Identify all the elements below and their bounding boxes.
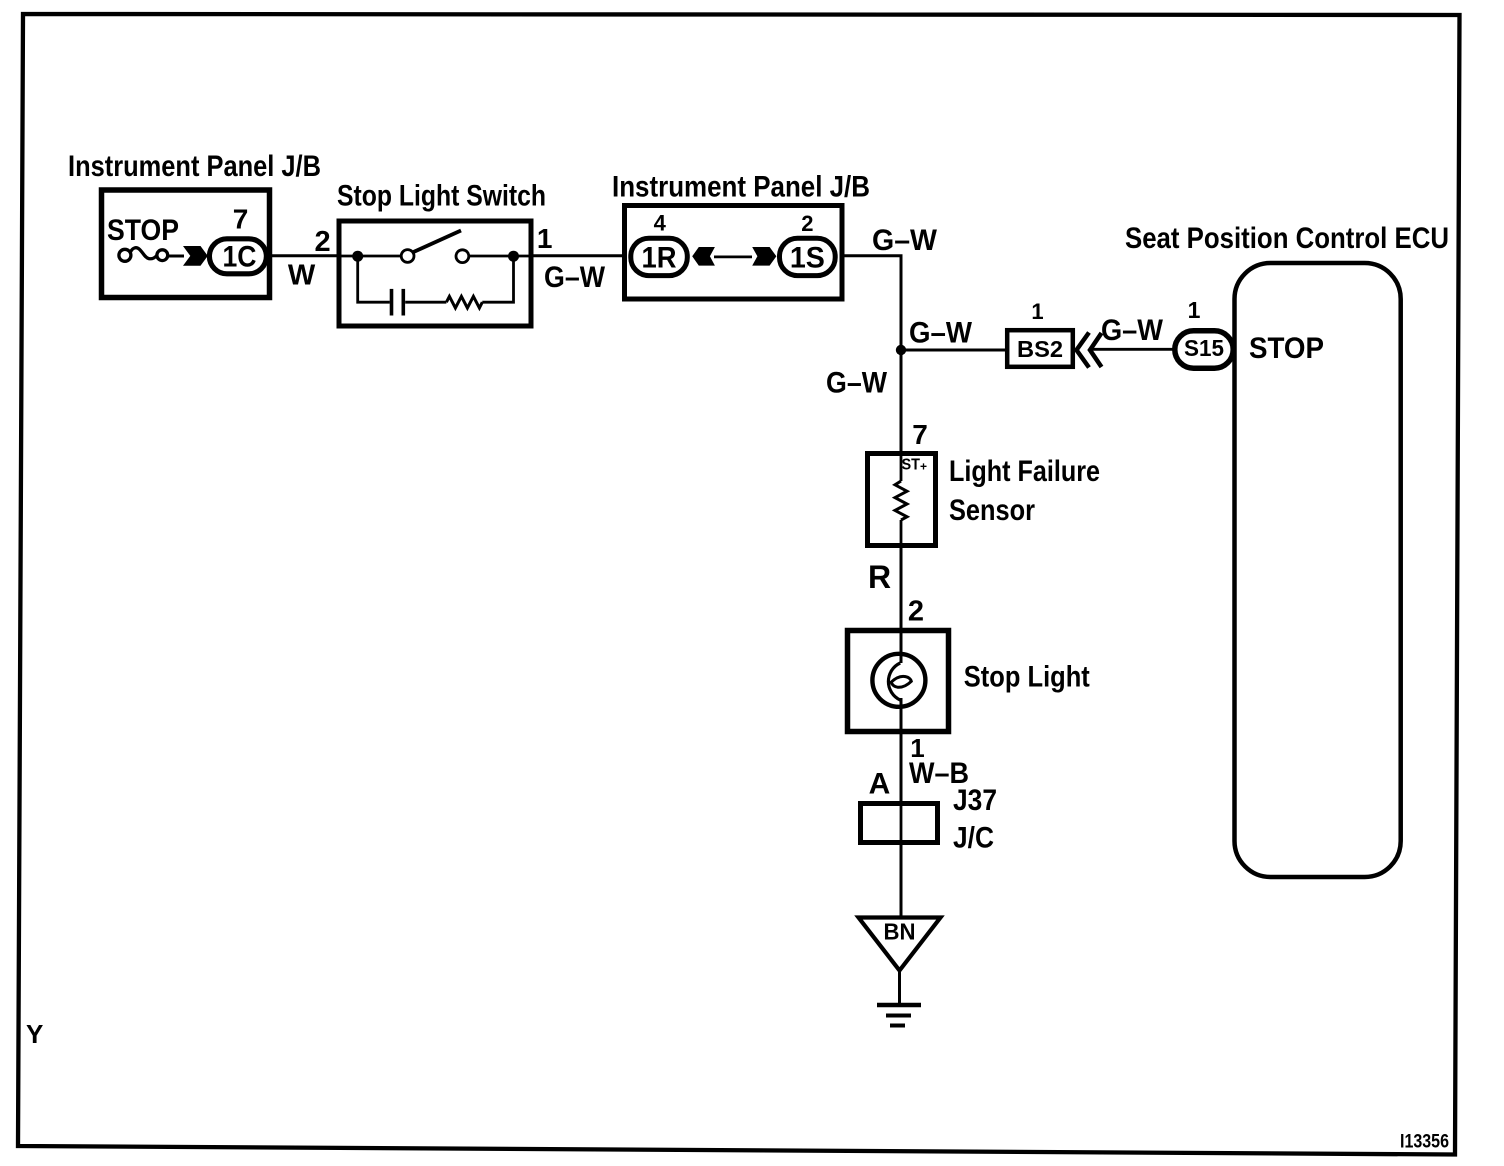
svg-text:4: 4	[654, 211, 667, 236]
svg-text:2: 2	[908, 596, 924, 628]
wire G-W junction to BS2	[901, 317, 1007, 351]
resistor inside sensor	[895, 453, 907, 548]
wire G-W junction down to sensor	[826, 350, 901, 456]
wire G-W from J/B2 down to junction	[842, 224, 938, 352]
svg-text:Sensor: Sensor	[949, 494, 1035, 527]
junction box J/B1: Instrument Panel J/B	[68, 150, 321, 298]
svg-text:G–W: G–W	[826, 367, 888, 400]
capacitor branch inside switch	[358, 256, 447, 316]
ground triangle BN	[859, 918, 941, 971]
svg-text:1C: 1C	[223, 241, 257, 274]
svg-text:1: 1	[537, 223, 553, 254]
svg-text:BN: BN	[884, 919, 916, 945]
connector 1C, pin 7	[209, 203, 266, 273]
svg-text:A: A	[869, 768, 891, 801]
wire BN to ground	[898, 971, 901, 1006]
svg-text:ST: ST	[902, 457, 921, 474]
svg-text:STOP: STOP	[107, 214, 179, 247]
resistor inside switch	[446, 258, 513, 308]
connector BS2, pin 1	[1007, 299, 1073, 367]
wire R from sensor to stop light	[868, 548, 924, 631]
svg-text:J/C: J/C	[953, 822, 994, 855]
wire G-W from switch to J/B2	[531, 223, 626, 294]
ground symbol	[877, 1005, 921, 1026]
arrows between 1R and 1S	[692, 247, 776, 266]
wire fuse to 1C with arrow	[169, 246, 208, 266]
svg-text:Instrument Panel J/B: Instrument Panel J/B	[68, 150, 321, 183]
svg-text:Instrument Panel J/B: Instrument Panel J/B	[612, 171, 870, 204]
junction box J/B2: Instrument Panel J/B	[612, 171, 870, 300]
svg-text:R: R	[868, 559, 891, 595]
svg-text:BS2: BS2	[1017, 336, 1063, 362]
svg-text:G–W: G–W	[909, 317, 973, 350]
Seat Position Control ECU	[1125, 222, 1449, 877]
svg-text:Stop Light: Stop Light	[964, 660, 1090, 693]
svg-text:G–W: G–W	[544, 261, 606, 294]
wire J/C to ground triangle BN	[900, 845, 903, 918]
svg-text:7: 7	[912, 419, 928, 450]
svg-text:2: 2	[801, 211, 813, 236]
double chevron connector symbol	[1077, 333, 1102, 368]
svg-text:G–W: G–W	[872, 224, 938, 257]
svg-text:1: 1	[1188, 297, 1201, 323]
svg-text:1: 1	[1031, 299, 1043, 324]
svg-text:Seat Position Control ECU: Seat Position Control ECU	[1125, 222, 1449, 255]
svg-text:+: +	[920, 460, 927, 474]
wire W from 1C to switch	[270, 226, 341, 292]
stop light bulb	[848, 631, 1090, 735]
svg-text:W: W	[288, 260, 316, 292]
svg-text:1R: 1R	[642, 242, 677, 275]
svg-text:1S: 1S	[790, 242, 825, 275]
svg-text:S15: S15	[1184, 335, 1224, 361]
junction connector J37 J/C, pin A	[861, 784, 998, 855]
svg-text:STOP: STOP	[1249, 332, 1324, 365]
svg-text:Light Failure: Light Failure	[949, 455, 1100, 488]
switch contacts	[342, 231, 530, 263]
svg-text:J37: J37	[953, 784, 997, 817]
stop light switch box	[337, 180, 546, 327]
svg-text:Stop Light Switch: Stop Light Switch	[337, 180, 546, 213]
wire W-B from stop light to J37	[869, 733, 969, 803]
connector 1R, pin 4	[631, 211, 688, 276]
connector S15, pin 1	[1175, 297, 1233, 368]
fuse STOP	[107, 214, 179, 261]
svg-text:Y: Y	[26, 1019, 43, 1049]
svg-text:G–W: G–W	[1101, 314, 1164, 347]
junction node	[896, 345, 906, 355]
connector 1S, pin 2	[780, 211, 836, 276]
svg-text:I13356: I13356	[1400, 1132, 1449, 1153]
svg-text:7: 7	[233, 203, 249, 234]
light failure sensor, pin 7	[868, 419, 1101, 546]
svg-text:2: 2	[315, 226, 331, 258]
wire G-W chevron to S15	[1091, 314, 1176, 349]
